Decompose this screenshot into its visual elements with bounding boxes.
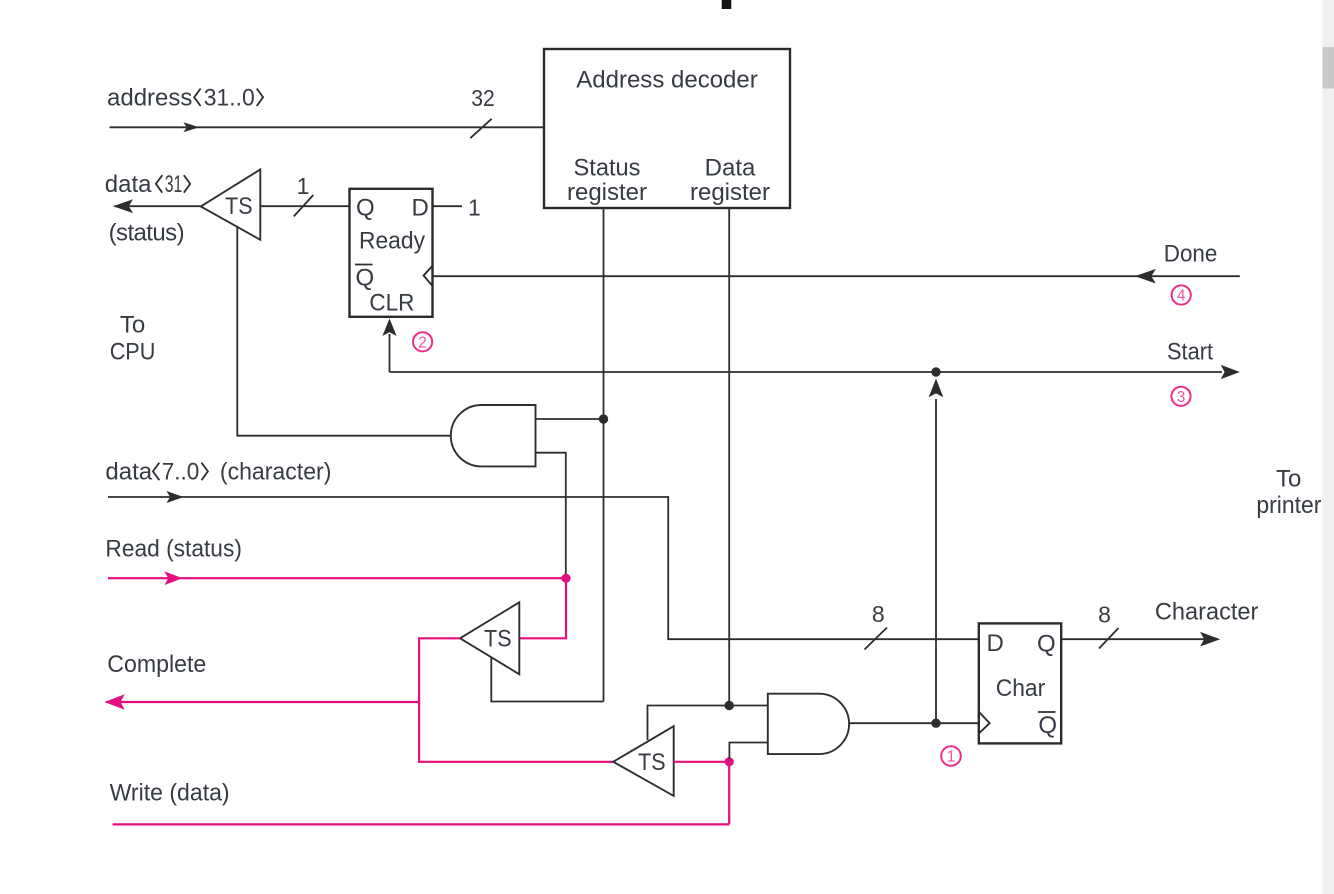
address decoder U1 [544, 49, 790, 208]
svg-text:(character): (character) [220, 459, 332, 486]
wire TS2 output to Complete bus [419, 638, 613, 762]
svg-text:printer: printer [1256, 492, 1321, 519]
svg-text:31: 31 [165, 171, 183, 198]
AND gate G1 (mirrored) [451, 405, 536, 466]
svg-text:Complete: Complete [107, 651, 206, 678]
wire data bus 7..0 [108, 497, 979, 639]
wire CLR input with arrow [389, 334, 391, 372]
wire data select to AND2 [729, 705, 768, 707]
wire AND1 input A [536, 418, 604, 420]
svg-text:TS: TS [638, 749, 666, 776]
svg-text:data: data [105, 459, 152, 486]
svg-text:4: 4 [1177, 288, 1186, 305]
svg-text:register: register [567, 179, 647, 206]
junction status select [599, 414, 608, 423]
bus slash 8 right [1099, 628, 1119, 649]
svg-text:TS: TS [225, 193, 253, 220]
D flip-flop Char [979, 623, 1061, 743]
wire Start [390, 371, 1223, 373]
svg-text:8: 8 [1098, 602, 1111, 628]
svg-text:To: To [120, 312, 145, 339]
bus slash 32 [470, 119, 491, 138]
tri-state buffer TS3 [613, 726, 674, 796]
svg-text:Q: Q [1037, 631, 1056, 658]
wire AND1 input B [536, 453, 566, 576]
svg-text:D: D [987, 630, 1004, 657]
wire AND2 output [849, 722, 979, 724]
wire Write [113, 823, 730, 825]
svg-text:8: 8 [872, 601, 885, 627]
arrow data31 (to CPU) [113, 199, 133, 213]
svg-text:Q: Q [1038, 712, 1057, 739]
bus slash 1 [294, 195, 314, 216]
wire Char Q output [1061, 638, 1205, 640]
svg-text:Character: Character [1155, 599, 1259, 626]
svg-text:Q: Q [356, 265, 375, 292]
arrow Done [1135, 269, 1156, 284]
wire TS1 to Ready Q [260, 205, 349, 207]
wire clock riser with up arrow [935, 399, 937, 723]
svg-text:Ready: Ready [359, 227, 425, 254]
sequence circle 3 [1171, 387, 1190, 406]
wire TS3 input [674, 761, 730, 763]
wire status select to TS2 enable [491, 657, 603, 702]
D flip-flop Ready [350, 189, 433, 317]
svg-text:CLR: CLR [369, 289, 414, 316]
wire status select vertical [603, 208, 605, 702]
arrow Read [165, 571, 183, 585]
sequence circle 4 [1172, 285, 1191, 304]
svg-text:Start: Start [1167, 339, 1213, 366]
svg-text:Write (data): Write (data) [110, 780, 230, 807]
svg-text:1: 1 [297, 173, 310, 199]
wire data31 out [115, 205, 201, 207]
wire Complete [109, 701, 419, 703]
clock input notch Char [979, 712, 990, 734]
svg-text:address: address [107, 84, 192, 111]
clock input notch Ready [424, 266, 433, 286]
svg-text:32: 32 [471, 85, 495, 111]
wire D to constant [433, 205, 463, 207]
arrow data bus [167, 491, 184, 503]
svg-text:(status): (status) [109, 220, 185, 247]
scrollbar thumb [1323, 47, 1334, 89]
wire data select vertical [728, 208, 730, 706]
junction Start line [931, 367, 940, 376]
wire Read to TS2 input [519, 578, 566, 638]
svg-text:Char: Char [996, 675, 1046, 702]
sequence circle 2 [413, 332, 432, 351]
wire AND2 bottom input [729, 743, 767, 760]
svg-text:CPU: CPU [110, 339, 156, 366]
svg-text:1: 1 [468, 195, 481, 221]
svg-text:data: data [105, 171, 152, 198]
svg-text:TS: TS [484, 625, 512, 652]
tri-state buffer TS1 [201, 170, 260, 240]
tri-state buffer TS2 [460, 602, 519, 674]
svg-text:Address decoder: Address decoder [576, 66, 758, 93]
wire AND1 output to TS1 enable [237, 227, 452, 436]
svg-text:31..0: 31..0 [204, 84, 255, 111]
svg-text:3: 3 [1177, 389, 1186, 406]
wire data select to TS3 enable [648, 706, 730, 741]
junction Read [561, 574, 570, 583]
junction Write [725, 757, 734, 766]
sequence circle 1 [941, 746, 961, 766]
svg-text:register: register [690, 179, 770, 206]
svg-text:1: 1 [947, 749, 956, 766]
cropped figure fragment [722, 0, 732, 9]
svg-text:7..0: 7..0 [162, 459, 200, 486]
junction AND2 output [931, 719, 940, 728]
scrollbar track [1323, 0, 1334, 894]
svg-text:Data: Data [705, 155, 756, 182]
junction data select [725, 701, 734, 710]
bus slash 8 left [865, 628, 888, 650]
wire address bus [110, 126, 545, 128]
svg-text:Read (status): Read (status) [105, 536, 242, 563]
svg-text:D: D [412, 195, 429, 222]
AND gate G2 [768, 694, 849, 754]
wire Write riser [728, 762, 730, 825]
svg-text:2: 2 [418, 334, 427, 351]
svg-text:Done: Done [1164, 241, 1218, 268]
svg-text:Q: Q [356, 195, 375, 222]
wire Read [108, 577, 566, 579]
arrow Complete [104, 694, 124, 709]
arrow Character [1200, 632, 1220, 647]
wire Done [433, 275, 1240, 277]
arrow Start [1221, 365, 1240, 380]
svg-text:Status: Status [574, 155, 641, 182]
svg-text:To: To [1276, 466, 1301, 493]
arrow address bus [183, 122, 199, 132]
